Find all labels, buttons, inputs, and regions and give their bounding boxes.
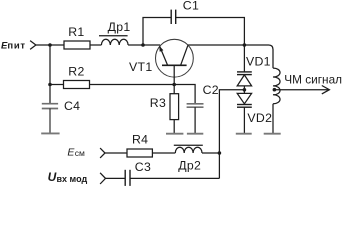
ground VD2 bbox=[236, 133, 252, 135]
ground C4 bbox=[41, 132, 59, 134]
svg-text:R1: R1 bbox=[68, 25, 84, 39]
svg-text:VD1: VD1 bbox=[246, 55, 271, 69]
core line Др2 bbox=[174, 144, 203, 146]
coil L bbox=[273, 68, 280, 104]
wire C3 to junction bbox=[130, 177, 219, 179]
svg-text:VT1: VT1 bbox=[129, 60, 152, 74]
wire VD2 to ground bbox=[243, 107, 245, 133]
ground coil bbox=[264, 133, 281, 135]
wire R4 to Др2 bbox=[152, 152, 175, 154]
node varactor midpoint bbox=[243, 88, 247, 92]
resistor R3 bbox=[170, 94, 179, 120]
wire Др2 to junction bbox=[202, 152, 219, 154]
svg-text:C2: C2 bbox=[203, 83, 219, 97]
node Есм junction bbox=[218, 151, 222, 155]
resistor R2 bbox=[64, 81, 90, 89]
wire R2 to base and C2 bbox=[90, 85, 196, 104]
collector VT1 bbox=[181, 45, 188, 65]
emitter arrow bbox=[159, 46, 163, 52]
ground C2 bbox=[187, 133, 203, 135]
wire collector to coil corner bbox=[188, 45, 273, 68]
svg-text:см: см bbox=[75, 148, 85, 158]
svg-text:вх мод: вх мод bbox=[57, 174, 88, 184]
transistor VT1 bbox=[156, 39, 194, 77]
inductor Др2 bbox=[175, 147, 202, 153]
wire C4 to ground bbox=[49, 109, 51, 134]
terminal Епит bbox=[30, 41, 36, 50]
wire Др1 to VT1 emitter bbox=[128, 44, 160, 46]
svg-text:ЧМ сигнал: ЧМ сигнал bbox=[284, 72, 342, 86]
wire VD1 to VD2 bbox=[243, 86, 245, 94]
inductor Др1 bbox=[101, 39, 128, 45]
wire output bbox=[274, 89, 329, 91]
capacitor C2 bbox=[187, 103, 204, 105]
wire R3 to ground bbox=[173, 120, 175, 134]
node base junction bbox=[172, 83, 176, 87]
node Епит junction bbox=[48, 43, 52, 47]
svg-text:VD2: VD2 bbox=[247, 111, 272, 125]
varactor VD1 bbox=[237, 71, 252, 73]
wire coil to ground bbox=[272, 104, 274, 133]
arrow output bbox=[322, 86, 330, 94]
capacitor C4 bbox=[42, 103, 58, 105]
node collector junction bbox=[243, 43, 247, 47]
ground R3 bbox=[166, 133, 183, 135]
wire R1 to Др1 bbox=[90, 44, 101, 46]
svg-text:Др1: Др1 bbox=[108, 20, 131, 34]
svg-text:U: U bbox=[48, 170, 57, 184]
node C1 left branch bbox=[141, 43, 145, 47]
wire Епит to R1 bbox=[36, 44, 64, 46]
emitter VT1 bbox=[160, 47, 168, 66]
node R2 junction bbox=[48, 83, 52, 87]
base column wire bbox=[173, 65, 175, 93]
svg-text:C1: C1 bbox=[183, 0, 199, 12]
capacitor C3 bbox=[124, 170, 126, 186]
resistor R1 bbox=[64, 41, 90, 49]
resistor R4 bbox=[127, 149, 152, 157]
terminal Uвх мод bbox=[100, 173, 105, 184]
svg-text:R3: R3 bbox=[150, 96, 166, 110]
svg-text:C4: C4 bbox=[64, 99, 80, 113]
svg-text:R4: R4 bbox=[132, 132, 148, 146]
wire C2 to ground bbox=[194, 107, 196, 133]
svg-text:C3: C3 bbox=[135, 160, 151, 174]
svg-text:Др2: Др2 bbox=[178, 158, 201, 172]
varactor VD2 bbox=[237, 93, 251, 103]
wire to C3 bbox=[106, 177, 125, 179]
base bar VT1 bbox=[162, 64, 187, 66]
wire Есм to R4 bbox=[105, 152, 127, 154]
node coil tap bbox=[273, 88, 277, 92]
capacitor C1 bbox=[170, 10, 172, 24]
wire C1 right to rail bbox=[176, 18, 244, 72]
svg-text:R2: R2 bbox=[68, 64, 84, 78]
wire modulation vertical bbox=[219, 90, 244, 179]
wire to R2 bbox=[50, 84, 64, 86]
core line Др1 bbox=[99, 35, 128, 37]
terminal Есм bbox=[100, 148, 105, 158]
wire C1 left drop bbox=[143, 18, 171, 46]
svg-text:пит: пит bbox=[7, 41, 25, 52]
left rail bbox=[49, 45, 51, 103]
